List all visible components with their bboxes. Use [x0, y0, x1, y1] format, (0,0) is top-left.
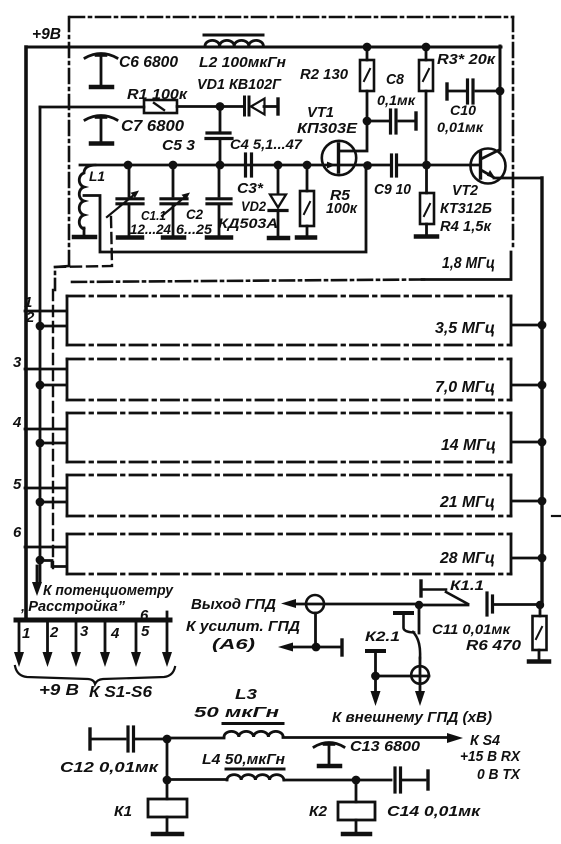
- connector circle ext VFO: [411, 666, 429, 684]
- arrow K S4: [447, 733, 463, 743]
- svg-text:С8: С8: [386, 71, 405, 88]
- svg-text:1: 1: [22, 625, 30, 642]
- node C2 top: [169, 161, 178, 170]
- svg-text:С6 6800: С6 6800: [119, 54, 178, 71]
- tuning line wire: [40, 106, 144, 109]
- stray tick right edge: [552, 515, 561, 517]
- svg-text:12...24: 12...24: [130, 221, 171, 237]
- node VD2 top: [274, 161, 283, 170]
- svg-text:0,01мк: 0,01мк: [437, 119, 484, 135]
- tuning line arrow to potentiometer: [32, 566, 42, 596]
- mechanical link dash from C1.1: [55, 217, 112, 267]
- capacitor C13: [314, 743, 344, 767]
- svg-text:+9 В: +9 В: [39, 682, 79, 699]
- svg-text:28 МГц: 28 МГц: [439, 550, 495, 567]
- svg-text:L1: L1: [89, 168, 105, 184]
- inductor L3: [167, 724, 450, 739]
- capacitor C12: [90, 727, 167, 751]
- svg-text:4: 4: [12, 414, 22, 431]
- node stub 3b: [36, 381, 45, 390]
- wire collector drop from rail: [499, 46, 502, 150]
- svg-text:„Расстройка”: „Расстройка”: [20, 598, 125, 615]
- svg-text:100к: 100к: [326, 200, 358, 217]
- svg-text:С2: С2: [186, 206, 203, 222]
- wire stub 5b: [40, 501, 66, 504]
- node stub 2: [36, 322, 45, 331]
- transistor VT1 (JFET): [322, 124, 368, 175]
- capacitor C10: [447, 80, 500, 103]
- svg-text:L4 50,мкГн: L4 50,мкГн: [202, 751, 285, 768]
- VFO output line arrow: [281, 599, 296, 608]
- wire main line to C11: [419, 604, 468, 607]
- svg-text:1,8 МГц: 1,8 МГц: [442, 255, 495, 272]
- connector pin 4: [100, 622, 110, 667]
- svg-text:С13 6800: С13 6800: [350, 738, 421, 755]
- node K2 relay: [352, 776, 361, 785]
- VT2 emitter wire to bus: [494, 177, 542, 180]
- wire stub 3: [25, 368, 66, 371]
- connector circle VFO out: [306, 595, 324, 613]
- dashed box 1,8 MHz border: [55, 17, 513, 290]
- svg-text:С9 10: С9 10: [374, 181, 412, 198]
- +9V rail top wire: [27, 46, 501, 49]
- svg-text:VD2: VD2: [241, 198, 266, 214]
- svg-text:К2.1: К2.1: [365, 628, 400, 644]
- svg-text:0 В ТХ: 0 В ТХ: [477, 766, 521, 783]
- contact T2 of K2.1: [367, 651, 384, 676]
- terminal bar amp line: [340, 640, 343, 655]
- capacitor C11: [487, 593, 537, 615]
- node VT1 drain: [363, 117, 372, 126]
- inductor L1: [74, 165, 95, 237]
- svg-text:К1: К1: [114, 803, 132, 820]
- node VT1 source: [363, 161, 372, 170]
- tuning rail vertical wire: [39, 107, 42, 582]
- capacitor C14: [395, 768, 428, 792]
- node C12/L3: [163, 735, 172, 744]
- band box 28 MHz: [67, 534, 511, 574]
- capacitor C9: [368, 155, 479, 176]
- band box 3,5 MHz: [67, 296, 511, 345]
- inductor L2: [204, 35, 263, 46]
- capacitor C5: [206, 107, 232, 164]
- node stub 5b: [36, 498, 45, 507]
- svg-text:VT1: VT1: [307, 104, 334, 121]
- capacitor C7: [85, 116, 117, 144]
- resistor R5: [297, 165, 315, 238]
- wire stub 6: [25, 546, 66, 549]
- node bus C11: [536, 601, 544, 609]
- svg-text:2: 2: [49, 624, 59, 641]
- svg-text:L3: L3: [235, 686, 258, 703]
- node main output line: [415, 601, 423, 609]
- arrow ext VFO right: [415, 691, 425, 706]
- node R5 top: [303, 161, 312, 170]
- wire stub 1: [25, 310, 66, 313]
- resistor R6: [529, 605, 549, 662]
- capacitor C8: [367, 110, 416, 133]
- svg-text:К1.1: К1.1: [450, 577, 484, 593]
- variable capacitor C1.1: [107, 165, 143, 238]
- svg-text:0,1мк: 0,1мк: [377, 92, 416, 108]
- main gate line wire: [80, 164, 337, 167]
- node stub 6b: [36, 556, 45, 565]
- connector pin 3: [71, 622, 81, 667]
- svg-text:4: 4: [110, 625, 120, 642]
- wire stub 6b: [40, 561, 66, 567]
- svg-text:К внешнему ГПД (хВ): К внешнему ГПД (хВ): [332, 709, 492, 726]
- svg-text:R6 470: R6 470: [466, 637, 522, 654]
- node bus box3: [538, 381, 547, 390]
- svg-text:5: 5: [141, 623, 150, 640]
- node circle stub: [312, 643, 321, 652]
- svg-text:К S1-S6: К S1-S6: [89, 684, 152, 701]
- relay K2: [338, 780, 375, 834]
- wire stub 5: [25, 487, 66, 490]
- resistor R1: [144, 100, 220, 113]
- wire stub 4b: [40, 442, 66, 445]
- svg-text:С7 6800: С7 6800: [121, 118, 184, 135]
- wire box6 to bus: [512, 557, 542, 560]
- switch K2.1: [395, 605, 420, 658]
- brace under connector: [15, 666, 175, 684]
- node L4: [163, 776, 172, 785]
- node bus box6: [538, 554, 547, 563]
- wire stub 4: [25, 428, 66, 431]
- svg-text:К усилит. ГПД: К усилит. ГПД: [186, 618, 300, 635]
- node bus box4: [538, 438, 547, 447]
- svg-text:R1 100к: R1 100к: [127, 86, 188, 103]
- svg-text:К2: К2: [309, 803, 328, 820]
- svg-text:+9В: +9В: [32, 26, 61, 43]
- capacitor C6: [85, 54, 117, 88]
- svg-text:С5 3: С5 3: [162, 137, 196, 154]
- diode VD2: [269, 165, 288, 238]
- svg-text:С4 5,1...47: С4 5,1...47: [230, 136, 303, 152]
- wire stub 3b: [40, 384, 66, 387]
- node bus box5: [538, 497, 547, 506]
- svg-text:С3*: С3*: [237, 180, 264, 197]
- wire amplifier feed line: [291, 646, 340, 649]
- svg-text:К потенциометру: К потенциометру: [43, 582, 174, 599]
- inductor L4: [167, 769, 391, 780]
- node K2 lower: [371, 672, 380, 681]
- svg-text:21 МГц: 21 МГц: [439, 494, 495, 511]
- wire node to circle: [376, 675, 430, 678]
- band box 7,0 MHz: [67, 359, 511, 400]
- svg-text:КП303Е: КП303Е: [297, 120, 358, 137]
- node C9/R3/R4: [422, 161, 431, 170]
- node C5/C3/C4: [216, 161, 225, 170]
- svg-text:+15 В RX: +15 В RX: [460, 748, 521, 765]
- svg-text:С11 0,01мк: С11 0,01мк: [432, 621, 511, 637]
- resistor R2: [360, 47, 374, 119]
- switch K1.1: [421, 581, 468, 604]
- wire stub 2: [40, 325, 66, 328]
- connector bar +9V distribution: [16, 618, 170, 623]
- right bus vertical wire: [540, 178, 543, 605]
- svg-text:14 МГц: 14 МГц: [441, 437, 496, 454]
- svg-text:R4 1,5к: R4 1,5к: [440, 218, 492, 235]
- node bus box2: [538, 321, 547, 330]
- capacitor C4: [246, 154, 252, 176]
- node C10 collector: [496, 87, 505, 96]
- wire box3 to bus: [512, 384, 542, 387]
- svg-text:К S4: К S4: [470, 732, 501, 749]
- varicap diode VD1: [220, 97, 278, 115]
- amplifier feed line arrow: [278, 643, 293, 652]
- connector pin 2: [43, 622, 53, 667]
- svg-text:L2 100мкГн: L2 100мкГн: [199, 54, 286, 71]
- arrow ext VFO left: [371, 691, 381, 706]
- svg-text:3,5 МГц: 3,5 МГц: [435, 320, 495, 337]
- wire through ext circle: [419, 658, 422, 692]
- svg-text:С10: С10: [450, 102, 476, 118]
- svg-text:R2 130: R2 130: [300, 66, 349, 83]
- connector pin 5: [131, 622, 141, 667]
- box 1,8 bottom right corner: [422, 252, 511, 280]
- svg-text:5: 5: [13, 476, 22, 493]
- trimmer capacitor C2: [161, 165, 190, 238]
- node R3 top rail: [422, 43, 431, 52]
- svg-text:6: 6: [13, 524, 22, 541]
- svg-text:VT2: VT2: [452, 182, 479, 199]
- wire output line: [294, 603, 417, 606]
- transistor VT2: [471, 149, 506, 184]
- band box 21 MHz: [67, 475, 511, 516]
- svg-text:50 мкГн: 50 мкГн: [194, 704, 279, 721]
- L1 tap feedback wire: [84, 168, 366, 252]
- svg-text:КТ312Б: КТ312Б: [440, 200, 492, 217]
- resistor R3: [419, 47, 433, 164]
- node R2 top rail: [363, 43, 372, 52]
- node at R1/VD1/C5: [216, 102, 225, 111]
- capacitor C3: [207, 165, 231, 238]
- +9V rail left vertical wire: [24, 47, 28, 618]
- band switch dash line: [52, 290, 54, 568]
- connector pin 1: [14, 622, 24, 667]
- wire circle stub down: [314, 613, 317, 647]
- svg-text:VD1 КВ102Г: VD1 КВ102Г: [197, 76, 282, 93]
- wire box2 to bus: [512, 324, 542, 327]
- svg-text:R3* 20к: R3* 20к: [437, 51, 497, 68]
- node L1/C1.1: [124, 161, 133, 170]
- band box 14 MHz: [67, 413, 511, 462]
- svg-text:3: 3: [13, 354, 22, 371]
- svg-text:2: 2: [25, 309, 35, 326]
- svg-text:(А6): (А6): [212, 636, 255, 653]
- wire box4 to bus: [512, 441, 542, 444]
- svg-text:С14 0,01мк: С14 0,01мк: [387, 803, 482, 820]
- wire box5 to bus: [512, 500, 542, 503]
- node stub 4b: [36, 439, 45, 448]
- resistor R4: [416, 165, 437, 237]
- svg-text:3: 3: [80, 623, 89, 640]
- connector pin 6: [162, 612, 172, 667]
- wire node down: [374, 676, 377, 692]
- svg-text:6...25: 6...25: [176, 221, 212, 237]
- svg-text:6: 6: [140, 607, 149, 624]
- svg-text:КД503А: КД503А: [218, 215, 278, 231]
- svg-text:Выход ГПД: Выход ГПД: [191, 596, 276, 613]
- svg-text:С12 0,01мк: С12 0,01мк: [60, 759, 160, 776]
- svg-text:7,0 МГц: 7,0 МГц: [435, 379, 495, 396]
- wire C12 node down: [166, 739, 169, 780]
- relay K1: [148, 780, 187, 834]
